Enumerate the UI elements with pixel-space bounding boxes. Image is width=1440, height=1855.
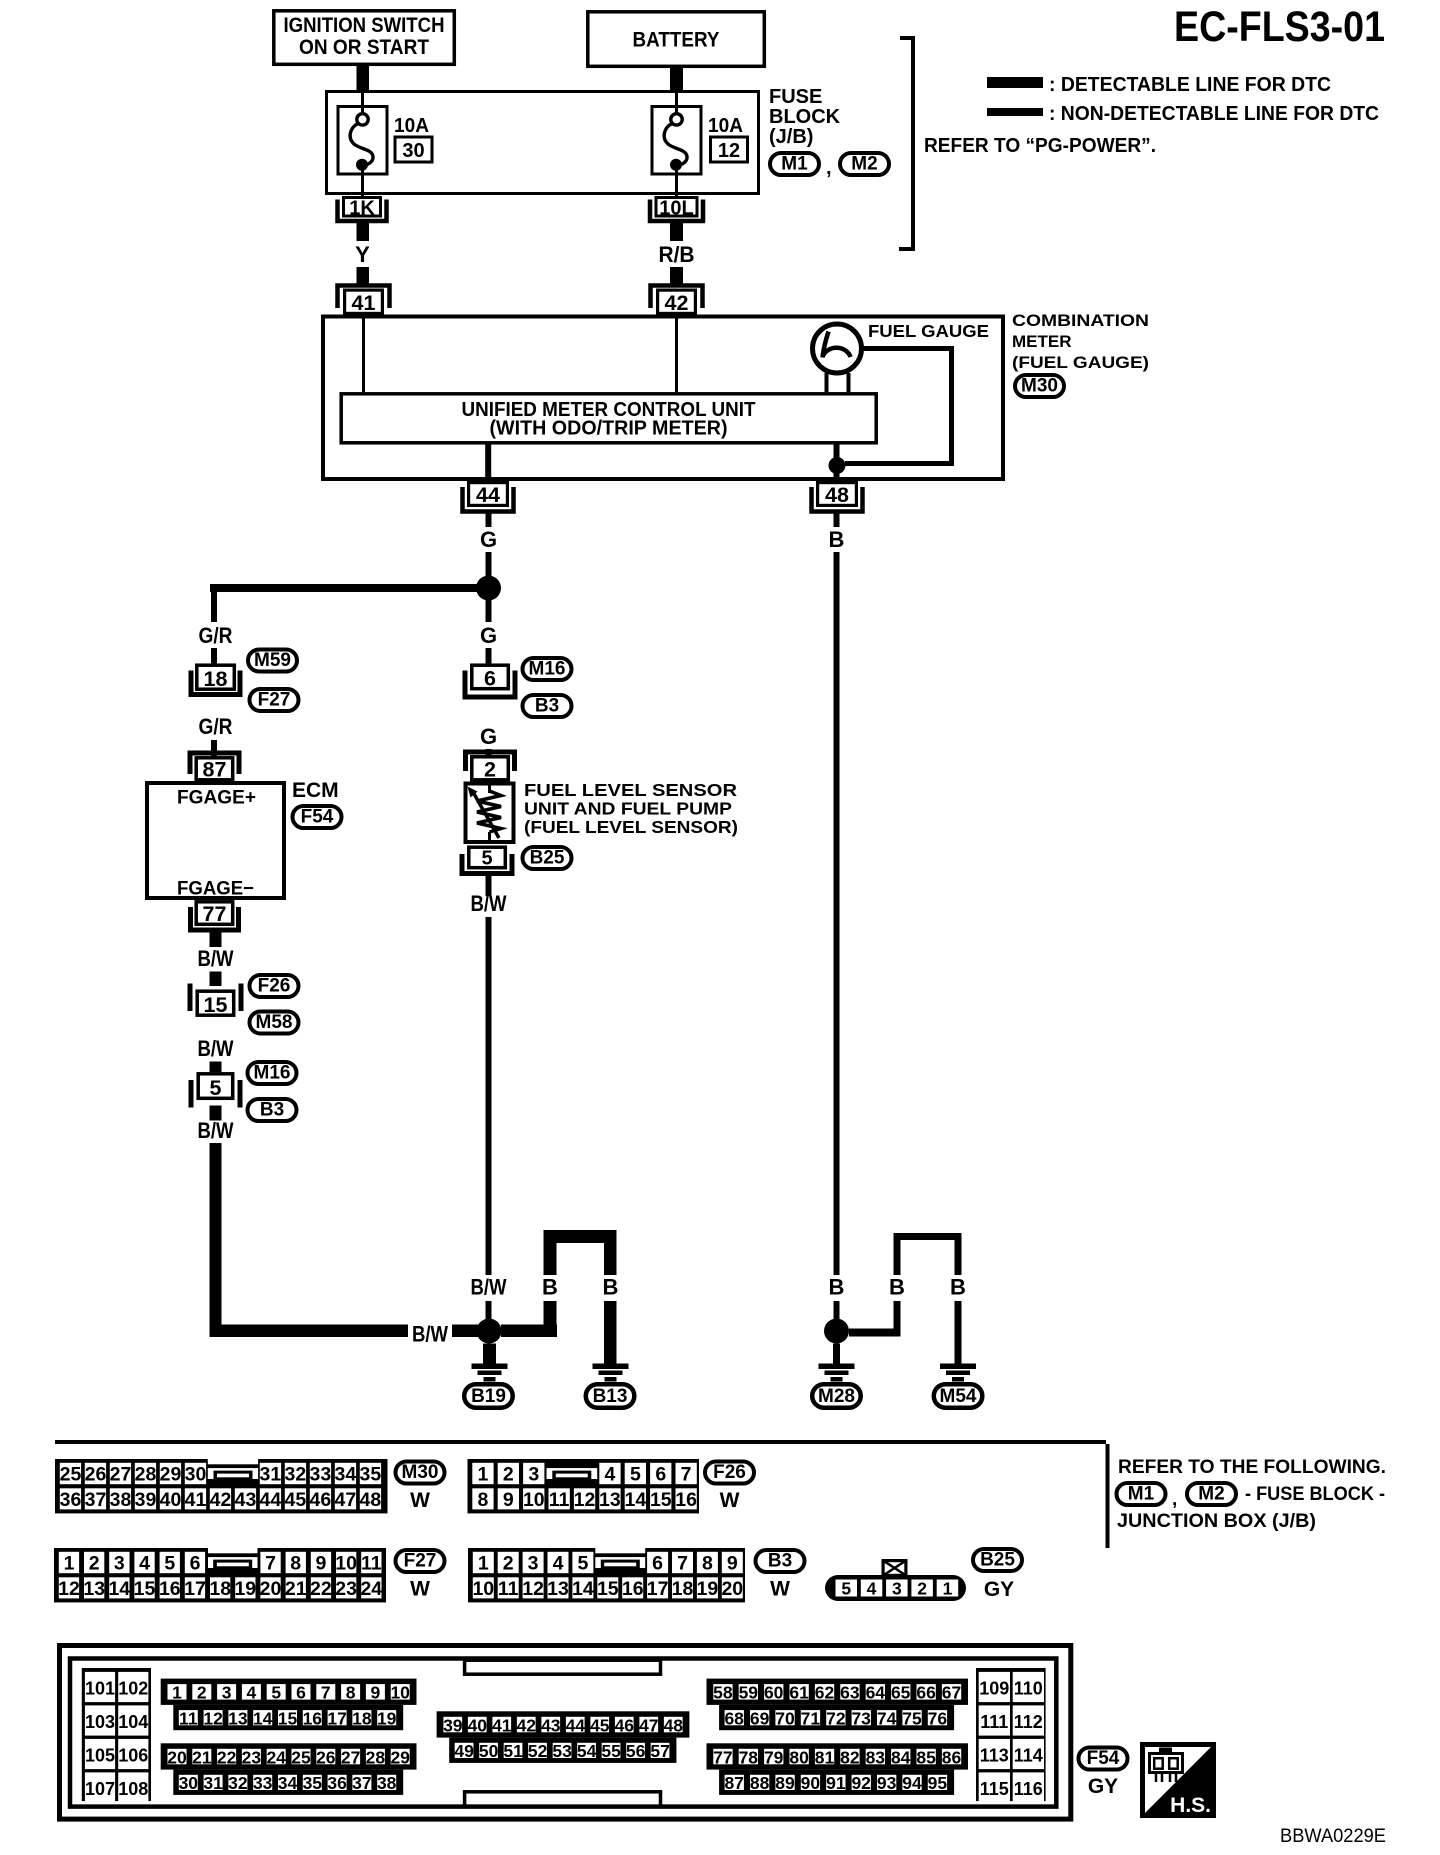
svg-text:90: 90 xyxy=(801,1773,821,1793)
svg-text:8: 8 xyxy=(290,1553,301,1575)
svg-text:W: W xyxy=(770,1578,790,1601)
svg-text:106: 106 xyxy=(118,1746,148,1766)
svg-text:FGAGE+: FGAGE+ xyxy=(177,787,256,809)
svg-text:16: 16 xyxy=(303,1708,323,1728)
connector ref F54 bottom xyxy=(1079,1748,1128,1770)
svg-text:115: 115 xyxy=(980,1779,1009,1799)
svg-text:38: 38 xyxy=(110,1489,132,1511)
fuse 10A #30 xyxy=(338,91,387,196)
svg-text:G/R: G/R xyxy=(199,623,233,648)
wire 77 stub B/W xyxy=(210,931,222,947)
svg-text:34: 34 xyxy=(335,1464,357,1486)
svg-text:108: 108 xyxy=(118,1779,148,1799)
svg-text:2: 2 xyxy=(484,758,496,782)
connector 87 box xyxy=(196,758,233,782)
svg-text:52: 52 xyxy=(528,1741,548,1761)
svg-text:B25: B25 xyxy=(980,1550,1015,1571)
svg-text:114: 114 xyxy=(1014,1746,1043,1766)
fuel level sensor box xyxy=(466,784,514,843)
ECM panel pins 1-19 xyxy=(161,1679,417,1731)
fuse block (J/B) box xyxy=(327,92,759,194)
svg-text:20: 20 xyxy=(260,1578,282,1600)
wire B/W to ground node 2 xyxy=(486,1301,492,1319)
fuse #12 value box xyxy=(711,137,748,162)
wire right loop right vertical lower xyxy=(955,1301,962,1364)
svg-text:88: 88 xyxy=(750,1773,770,1793)
svg-text:79: 79 xyxy=(764,1747,784,1767)
svg-text:42: 42 xyxy=(517,1715,537,1735)
svg-text:5: 5 xyxy=(481,848,492,870)
connector 48 box xyxy=(818,483,857,507)
fuse block bracket xyxy=(899,38,913,249)
svg-text:18: 18 xyxy=(352,1708,372,1728)
svg-text:11: 11 xyxy=(498,1578,519,1600)
legend detectable line bar xyxy=(987,77,1043,88)
svg-text:FGAGE−: FGAGE− xyxy=(177,878,254,900)
connector 41 box xyxy=(345,290,383,315)
color label W F27 xyxy=(410,1578,430,1601)
svg-text:G: G xyxy=(480,724,497,749)
svg-text:44: 44 xyxy=(566,1715,586,1735)
svg-text:87: 87 xyxy=(724,1773,743,1793)
svg-text:28: 28 xyxy=(135,1464,157,1486)
svg-text:41: 41 xyxy=(185,1489,207,1511)
wire 41 to unified meter xyxy=(362,316,365,392)
svg-text:49: 49 xyxy=(454,1741,474,1761)
svg-text:19: 19 xyxy=(234,1578,256,1600)
svg-text:B: B xyxy=(889,1275,905,1300)
connector ref F27 table xyxy=(396,1550,445,1572)
ignition switch box xyxy=(274,11,455,65)
svg-text:REFER TO “PG-POWER”.: REFER TO “PG-POWER”. xyxy=(924,135,1156,157)
svg-text:77: 77 xyxy=(203,902,227,926)
svg-text:BATTERY: BATTERY xyxy=(633,29,720,52)
svg-text:16: 16 xyxy=(159,1578,181,1600)
connector 42 box xyxy=(658,290,696,315)
wire G to 2 xyxy=(486,749,492,756)
ECM connector panel frame xyxy=(60,1646,1071,1820)
connector table B3 xyxy=(468,1548,745,1602)
fuel gauge legs xyxy=(825,373,851,392)
connector table M30 xyxy=(55,1459,388,1513)
wire 5 stub B/W sensor xyxy=(486,876,492,896)
wire node to ground B19 xyxy=(483,1344,496,1364)
svg-text:75: 75 xyxy=(902,1708,922,1728)
node meter internal junction xyxy=(829,457,846,474)
ground ref M54 xyxy=(934,1384,983,1408)
svg-text:19: 19 xyxy=(697,1578,719,1600)
svg-text:13: 13 xyxy=(83,1578,105,1600)
svg-text:76: 76 xyxy=(928,1708,948,1728)
svg-text:29: 29 xyxy=(160,1464,182,1486)
connector ref B25 xyxy=(523,847,572,869)
svg-text:58: 58 xyxy=(713,1683,733,1703)
svg-text:30: 30 xyxy=(402,140,424,162)
svg-text:M1: M1 xyxy=(781,154,808,175)
svg-text:109: 109 xyxy=(979,1679,1009,1699)
connector 2 box xyxy=(472,757,509,782)
svg-text:B/W: B/W xyxy=(198,1036,234,1061)
svg-text:14: 14 xyxy=(253,1708,273,1728)
svg-text:G: G xyxy=(480,527,497,552)
wire G branch down xyxy=(211,592,217,622)
svg-text:55: 55 xyxy=(601,1741,621,1761)
svg-text:29: 29 xyxy=(390,1747,410,1767)
svg-text:COMBINATION: COMBINATION xyxy=(1012,311,1149,330)
svg-text:84: 84 xyxy=(891,1747,911,1767)
ECM box xyxy=(147,783,284,898)
svg-text:17: 17 xyxy=(327,1708,346,1728)
svg-text:39: 39 xyxy=(443,1715,463,1735)
connector ref F26 table xyxy=(705,1462,754,1484)
wire B/W long run xyxy=(210,1143,409,1337)
svg-text:12: 12 xyxy=(203,1708,223,1728)
ref M1 bottom xyxy=(1117,1483,1166,1505)
svg-text:101: 101 xyxy=(85,1679,115,1699)
svg-text:6: 6 xyxy=(652,1553,663,1575)
svg-text:44: 44 xyxy=(260,1489,282,1511)
svg-text:65: 65 xyxy=(891,1683,911,1703)
svg-text:FUSE: FUSE xyxy=(769,86,822,108)
drawing number BBWA0229E xyxy=(1280,1826,1386,1847)
svg-text:45: 45 xyxy=(590,1715,610,1735)
connector ref M16 inline xyxy=(248,1062,297,1084)
svg-text:F54: F54 xyxy=(301,807,334,828)
svg-text:61: 61 xyxy=(789,1683,809,1703)
connector ref M30 xyxy=(1015,375,1064,397)
svg-text:11: 11 xyxy=(361,1553,382,1575)
svg-text:14: 14 xyxy=(625,1489,647,1511)
ECM panel pins 101-108 xyxy=(82,1668,151,1803)
svg-text:10: 10 xyxy=(390,1683,410,1703)
svg-text:M59: M59 xyxy=(254,650,291,671)
connector 44 bracket xyxy=(463,487,514,512)
note refer to PG-POWER xyxy=(924,135,1156,157)
wire B/W to 15 xyxy=(210,972,222,987)
wire Y to 41 xyxy=(357,267,370,284)
svg-text:80: 80 xyxy=(789,1747,809,1767)
svg-text:36: 36 xyxy=(327,1773,347,1793)
svg-text:10L: 10L xyxy=(659,198,693,220)
connector 77 box xyxy=(196,902,233,926)
svg-text:9: 9 xyxy=(503,1489,514,1511)
connector ref M59 xyxy=(248,650,297,672)
connector ref B3 xyxy=(523,695,572,717)
svg-text:27: 27 xyxy=(110,1464,132,1486)
svg-text:78: 78 xyxy=(739,1747,759,1767)
svg-text:8: 8 xyxy=(477,1489,488,1511)
combination meter box xyxy=(323,317,1003,480)
svg-text:14: 14 xyxy=(572,1578,594,1600)
svg-text:37: 37 xyxy=(352,1773,371,1793)
svg-text:87: 87 xyxy=(203,758,227,782)
ECM panel pins 39-57 xyxy=(437,1711,690,1763)
svg-text:41: 41 xyxy=(352,291,376,315)
pin label FGAGE+ xyxy=(177,787,256,809)
svg-text:1: 1 xyxy=(64,1553,75,1575)
svg-text:67: 67 xyxy=(942,1683,961,1703)
svg-text:34: 34 xyxy=(278,1773,298,1793)
wire label B right loop right xyxy=(950,1275,966,1300)
svg-text:35: 35 xyxy=(360,1464,382,1486)
note refer to following xyxy=(1118,1457,1386,1478)
ground ref B19 xyxy=(464,1384,513,1408)
svg-text:B: B xyxy=(829,1275,845,1300)
svg-text:13: 13 xyxy=(599,1489,621,1511)
svg-text:15: 15 xyxy=(597,1578,619,1600)
svg-text:64: 64 xyxy=(866,1683,886,1703)
wire node to ground M28 xyxy=(833,1344,840,1364)
connector 5 sensor box xyxy=(469,847,506,869)
ground symbol M54 xyxy=(940,1364,976,1382)
wire label G/R lower xyxy=(199,714,233,739)
connector 41 bracket xyxy=(338,286,390,309)
color label W B3 xyxy=(770,1578,790,1601)
svg-text:11: 11 xyxy=(179,1708,198,1728)
color label W F26 xyxy=(720,1489,740,1512)
svg-text:9: 9 xyxy=(315,1553,326,1575)
connector 77 bracket xyxy=(191,907,239,930)
svg-text:53: 53 xyxy=(552,1741,572,1761)
svg-text:35: 35 xyxy=(303,1773,323,1793)
text junction box xyxy=(1117,1511,1316,1532)
connector 6 box xyxy=(472,665,509,690)
svg-text:4: 4 xyxy=(553,1553,564,1575)
svg-text:19: 19 xyxy=(377,1708,397,1728)
svg-text:5: 5 xyxy=(841,1579,851,1599)
svg-text:25: 25 xyxy=(60,1464,82,1486)
svg-text:45: 45 xyxy=(285,1489,307,1511)
fuel gauge label xyxy=(868,321,989,341)
wire G/R stub to 87 xyxy=(211,740,217,757)
svg-text:12: 12 xyxy=(522,1578,544,1600)
svg-text:48: 48 xyxy=(664,1715,684,1735)
wire fuel gauge loop to node xyxy=(845,349,952,464)
svg-text:68: 68 xyxy=(724,1708,744,1728)
node G junction xyxy=(476,576,501,601)
connector ref F27 inline xyxy=(250,689,299,711)
svg-text:13: 13 xyxy=(547,1578,569,1600)
svg-text:2: 2 xyxy=(917,1579,927,1599)
color label GY B25 xyxy=(984,1578,1014,1601)
comma between M1 M2 xyxy=(826,157,832,179)
svg-text:10: 10 xyxy=(472,1578,494,1600)
wire 48 stub B xyxy=(834,513,840,527)
wire 5 stub B/W xyxy=(210,1106,222,1121)
svg-text:3: 3 xyxy=(528,1464,539,1486)
svg-text:16: 16 xyxy=(675,1489,697,1511)
wire battery to fuse block xyxy=(670,68,683,91)
svg-text:26: 26 xyxy=(85,1464,107,1486)
fuel level sensor label xyxy=(524,780,738,837)
svg-text:12: 12 xyxy=(718,140,740,162)
svg-text:UNIT AND FUEL PUMP: UNIT AND FUEL PUMP xyxy=(524,799,732,819)
svg-text:F27: F27 xyxy=(258,690,291,711)
svg-text:95: 95 xyxy=(928,1773,948,1793)
svg-text:116: 116 xyxy=(1014,1779,1043,1799)
wire node to loop left xyxy=(501,1325,557,1338)
svg-text:M2: M2 xyxy=(1198,1484,1224,1505)
svg-text:REFER TO THE FOLLOWING.: REFER TO THE FOLLOWING. xyxy=(1118,1457,1386,1478)
connector 42 bracket xyxy=(651,286,703,309)
svg-text:B3: B3 xyxy=(260,1100,284,1121)
svg-text:B/W: B/W xyxy=(412,1322,448,1347)
svg-text:4: 4 xyxy=(604,1464,615,1486)
svg-text:16: 16 xyxy=(622,1578,644,1600)
svg-text:63: 63 xyxy=(840,1683,860,1703)
wire B/W to ground node xyxy=(452,1325,478,1338)
svg-text:85: 85 xyxy=(916,1747,936,1767)
svg-text:ON OR START: ON OR START xyxy=(299,36,429,59)
legend non-detectable line bar xyxy=(987,108,1043,116)
legend detectable text xyxy=(1049,74,1331,96)
svg-text:B/W: B/W xyxy=(471,891,507,916)
connector 6 bracket xyxy=(465,671,515,698)
wire label B right loop left xyxy=(889,1275,905,1300)
svg-text:110: 110 xyxy=(1014,1679,1043,1699)
svg-text:6: 6 xyxy=(484,667,496,691)
svg-text:(WITH ODO/TRIP METER): (WITH ODO/TRIP METER) xyxy=(490,418,728,440)
svg-text:9: 9 xyxy=(371,1683,381,1703)
svg-text:15: 15 xyxy=(204,993,228,1017)
svg-text:EC-FLS3-01: EC-FLS3-01 xyxy=(1174,3,1385,51)
svg-text:(FUEL LEVEL SENSOR): (FUEL LEVEL SENSOR) xyxy=(524,817,738,837)
svg-text:B: B xyxy=(829,527,845,552)
wire loop left vertical upper xyxy=(544,1243,557,1275)
svg-text:54: 54 xyxy=(577,1741,597,1761)
separator line xyxy=(55,1440,1106,1444)
svg-text:39: 39 xyxy=(135,1489,157,1511)
svg-text:37: 37 xyxy=(85,1489,107,1511)
svg-text:7: 7 xyxy=(265,1553,276,1575)
svg-text:7: 7 xyxy=(321,1683,331,1703)
title EC-FLS3-01 xyxy=(1174,3,1385,51)
wire right loop left vertical lower seg xyxy=(894,1301,901,1333)
svg-text:24: 24 xyxy=(360,1578,382,1600)
svg-text:1: 1 xyxy=(172,1683,182,1703)
connector 44 box xyxy=(469,483,508,507)
svg-text:33: 33 xyxy=(310,1464,332,1486)
svg-text:5: 5 xyxy=(271,1683,281,1703)
svg-text:8: 8 xyxy=(702,1553,713,1575)
svg-text:4: 4 xyxy=(867,1579,877,1599)
svg-text:89: 89 xyxy=(775,1773,795,1793)
svg-text:M16: M16 xyxy=(529,659,566,680)
wire label Y xyxy=(355,242,370,267)
svg-text:JUNCTION BOX (J/B): JUNCTION BOX (J/B) xyxy=(1117,1511,1316,1532)
svg-text:46: 46 xyxy=(310,1489,332,1511)
svg-text:R/B: R/B xyxy=(659,242,695,267)
ECM panel pins 109-116 xyxy=(976,1668,1046,1803)
svg-text:10A: 10A xyxy=(394,115,429,137)
svg-text:8: 8 xyxy=(346,1683,356,1703)
svg-text:43: 43 xyxy=(541,1715,561,1735)
fuel level sensor resistor xyxy=(468,781,502,844)
divider vertical xyxy=(1106,1444,1110,1548)
wire G to 6 xyxy=(486,648,492,664)
svg-text:5: 5 xyxy=(210,1076,222,1100)
svg-text:3: 3 xyxy=(222,1683,232,1703)
svg-text:72: 72 xyxy=(826,1708,846,1728)
svg-text:9: 9 xyxy=(727,1553,738,1575)
wire label G/R upper xyxy=(199,623,233,648)
svg-text:4: 4 xyxy=(139,1553,150,1575)
svg-text:81: 81 xyxy=(815,1747,835,1767)
svg-text:91: 91 xyxy=(826,1773,846,1793)
svg-text:25: 25 xyxy=(291,1747,311,1767)
comma M1 M2 bottom xyxy=(1172,1489,1177,1510)
svg-text:METER: METER xyxy=(1012,332,1072,351)
svg-text:IGNITION SWITCH: IGNITION SWITCH xyxy=(284,14,445,37)
svg-text:B/W: B/W xyxy=(471,1275,507,1300)
ground ref B13 xyxy=(586,1384,635,1408)
svg-text:105: 105 xyxy=(85,1746,115,1766)
svg-text:42: 42 xyxy=(210,1489,232,1511)
connector ref B25 table xyxy=(973,1549,1022,1571)
svg-text:20: 20 xyxy=(167,1747,187,1767)
unified meter control unit box xyxy=(341,394,876,443)
connector ref M1 xyxy=(770,153,819,175)
connector 48 bracket xyxy=(812,487,863,512)
wire right loop top bar xyxy=(894,1233,962,1240)
svg-text:22: 22 xyxy=(310,1578,332,1600)
svg-text:93: 93 xyxy=(877,1773,897,1793)
wire label B/W sensor xyxy=(471,891,507,916)
wire B/W to 5 xyxy=(210,1062,222,1073)
ECM panel pins 20-38 xyxy=(161,1743,417,1795)
svg-text:3: 3 xyxy=(892,1579,902,1599)
svg-text:B25: B25 xyxy=(530,848,565,869)
svg-text:12: 12 xyxy=(58,1578,80,1600)
svg-text:M30: M30 xyxy=(1021,376,1058,397)
wire R/B to 42 xyxy=(670,267,683,284)
connector table F26 xyxy=(468,1459,700,1513)
svg-text:M1: M1 xyxy=(1128,1484,1155,1505)
battery box xyxy=(588,12,765,67)
wire 10L to R/B xyxy=(670,222,683,241)
fuel gauge symbol xyxy=(813,324,862,373)
svg-text:15: 15 xyxy=(134,1578,156,1600)
svg-text:60: 60 xyxy=(764,1683,784,1703)
connector ref B3 table xyxy=(756,1550,805,1572)
svg-text:33: 33 xyxy=(253,1773,273,1793)
svg-text:74: 74 xyxy=(877,1708,897,1728)
fuse #30 value box xyxy=(395,137,432,162)
connector 2 bracket xyxy=(466,752,515,771)
node ground junction B19 xyxy=(477,1319,502,1344)
svg-text:2: 2 xyxy=(197,1683,207,1703)
connector ref F26 inline xyxy=(250,975,299,997)
wire right loop right vertical upper xyxy=(955,1240,962,1275)
svg-text:14: 14 xyxy=(108,1578,130,1600)
svg-text:73: 73 xyxy=(851,1708,871,1728)
wire label B loop right xyxy=(603,1275,619,1300)
svg-text:F26: F26 xyxy=(258,976,291,997)
svg-text:B/W: B/W xyxy=(198,946,234,971)
connector 15 box xyxy=(197,991,234,1017)
svg-text:44: 44 xyxy=(476,483,500,507)
wire label R/B xyxy=(659,242,695,267)
svg-text:B: B xyxy=(603,1275,619,1300)
svg-text:40: 40 xyxy=(160,1489,182,1511)
wire unified meter to 48 xyxy=(834,444,840,481)
svg-text:103: 103 xyxy=(85,1712,115,1732)
ECM panel bottom slot xyxy=(465,1792,661,1807)
wire B to node xyxy=(834,1301,840,1319)
fuse 10A #30 label xyxy=(394,115,429,137)
svg-text:(FUEL GAUGE): (FUEL GAUGE) xyxy=(1012,353,1149,372)
svg-text:ECM: ECM xyxy=(292,779,339,802)
